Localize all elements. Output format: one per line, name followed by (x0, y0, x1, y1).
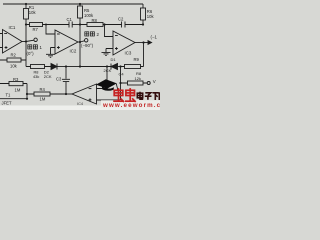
watermark cap logo (96, 79, 119, 91)
wire R4 to IC4 (66, 93, 72, 95)
svg-text:(−90°): (−90°) (81, 43, 94, 48)
node junction top rail / R1 (25, 3, 27, 5)
svg-text:www.eeworm.c: www.eeworm.c (102, 102, 160, 109)
wire D2 node to IC2 bus (66, 66, 80, 68)
wire right vertical bus (120, 67, 122, 101)
svg-text:R4: R4 (40, 87, 46, 92)
resistor R6 (141, 4, 146, 25)
capacitor C2 (122, 22, 144, 28)
svg-text:C4: C4 (119, 72, 125, 77)
capacitor C1 (69, 22, 80, 28)
watermark worm glyph 2 (125, 88, 136, 102)
wire IC3 inverting input (105, 25, 114, 37)
watermark text xia (153, 93, 159, 100)
node junction D2 / C3 (65, 65, 67, 67)
diode D2 (51, 64, 66, 70)
watermark worm glyph 1 (113, 88, 124, 102)
resistor R8b 12k (121, 81, 148, 85)
wire IC2 output vertical bus (79, 25, 81, 67)
svg-text:D1: D1 (111, 57, 117, 62)
wire to D1 (80, 66, 111, 68)
watermark text zi (145, 93, 152, 100)
resistor R7 (26, 23, 46, 27)
wire IC3 output (135, 42, 144, 44)
svg-text:1M: 1M (40, 97, 46, 102)
svg-text:R7: R7 (33, 27, 39, 32)
terminal Vo (147, 82, 150, 85)
wire IC2 inverting input from R7/C1 node (46, 25, 55, 35)
ground IC2 (46, 54, 55, 57)
op-amp IC4 (72, 84, 97, 104)
bottom white band (0, 106, 160, 111)
wire IC2 output (78, 41, 80, 43)
svg-text:IC3: IC3 (125, 51, 132, 56)
svg-text:10k: 10k (10, 64, 18, 69)
ground IC3 (102, 52, 111, 55)
svg-text:JFET: JFET (2, 100, 12, 105)
svg-text:43k: 43k (33, 74, 39, 79)
wire IC4 inverting input (97, 67, 108, 89)
svg-text:T1: T1 (6, 93, 12, 98)
node junction rail / R5 (79, 3, 81, 5)
svg-text:2CK: 2CK (44, 74, 52, 79)
watermark text dian (137, 92, 143, 99)
node junction IC3 output (142, 41, 144, 43)
svg-text:C2: C2 (118, 17, 124, 22)
resistor R2 (0, 58, 26, 62)
svg-text:IC4: IC4 (77, 101, 84, 106)
capacitor C3 (62, 67, 70, 95)
resistor R5 (78, 4, 83, 25)
node junction R7 right (45, 24, 47, 26)
svg-text:(−1: (−1 (151, 35, 158, 40)
watermark text zai clipped (159, 92, 160, 100)
label output2 chinese (85, 32, 95, 36)
resistor R3 (0, 82, 27, 86)
resistor R9 (121, 65, 144, 69)
svg-text:(0°): (0°) (27, 51, 35, 56)
wire R9 to IC3 output (143, 43, 145, 67)
node junction R1 bottom (25, 23, 27, 25)
svg-text:10k: 10k (147, 14, 155, 19)
svg-text:IC2: IC2 (70, 49, 77, 54)
op-amp IC3 (113, 31, 135, 55)
svg-text:1M: 1M (15, 88, 21, 93)
diode D1 (111, 64, 121, 70)
label output1 chinese (28, 45, 38, 49)
terminal output1 (26, 38, 37, 41)
wire to C1 (46, 24, 69, 26)
wire vertical bus left (25, 25, 27, 67)
wire IC3 noninverting input (106, 49, 113, 53)
background paper (0, 0, 160, 110)
node junction JFET drain (26, 98, 28, 100)
svg-text:10k: 10k (29, 10, 37, 15)
resistor R4 (27, 92, 66, 96)
node junction IC2 output (79, 41, 81, 43)
resistor R1 (24, 4, 29, 25)
op-amp IC2 (55, 30, 78, 54)
svg-text:R2: R2 (11, 53, 17, 58)
node junction right bus top (119, 65, 121, 67)
resistor R10 (26, 65, 51, 69)
node junction IC2 bus bottom (79, 65, 81, 67)
node junction C2 / R6 (142, 23, 144, 25)
wire IC2 noninverting input (51, 48, 56, 55)
wire top rail (3, 3, 143, 5)
wire to C2 (105, 24, 122, 26)
svg-text:R9: R9 (134, 57, 140, 62)
svg-text:C3: C3 (56, 77, 62, 82)
node junction R8b left (119, 82, 121, 84)
node junction D1 left (106, 65, 108, 67)
svg-text:IC1: IC1 (9, 25, 16, 30)
node junction C3 bottom (65, 93, 67, 95)
node junction C1 / R5 (79, 23, 81, 25)
svg-text:R8: R8 (92, 18, 98, 23)
node junction IC1 output (25, 40, 27, 42)
op-amp IC1 (0, 30, 22, 54)
svg-text:2CK: 2CK (104, 68, 112, 73)
resistor R8 (80, 23, 105, 27)
svg-text:V: V (153, 79, 156, 84)
node junction R8 right (103, 23, 105, 25)
wire arrow output3 (144, 42, 149, 44)
wire IC4 noninverting input (97, 99, 121, 101)
terminal output2 (80, 39, 88, 42)
wire R3 corner down (26, 84, 28, 99)
node junction R4 left (26, 93, 28, 95)
svg-text:C1: C1 (67, 17, 73, 22)
wire IC1 output (22, 41, 26, 43)
svg-text:R3: R3 (13, 77, 19, 82)
svg-text:12k: 12k (135, 76, 141, 81)
wire JFET channel (0, 98, 27, 100)
